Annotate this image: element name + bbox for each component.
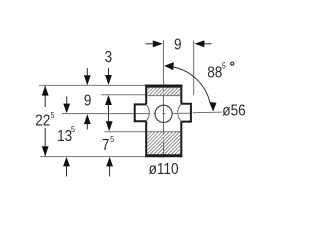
arc arrow down [209, 102, 216, 112]
label 9 top [174, 37, 182, 54]
angle arc 88.5 [171, 67, 210, 103]
svg-text:22: 22 [35, 113, 50, 130]
dim 9 left arrow down [86, 68, 88, 78]
svg-text:5: 5 [110, 134, 115, 144]
label diameter 56 [222, 103, 245, 120]
svg-text:5: 5 [51, 110, 56, 120]
extension line socket bottom (3) [101, 94, 146, 96]
arc arrow left [164, 62, 174, 70]
svg-text:3: 3 [105, 49, 113, 66]
svg-text:ø110: ø110 [149, 161, 179, 178]
body bottom edge [145, 155, 182, 157]
degree symbol [231, 62, 234, 65]
svg-text:ø56: ø56 [222, 103, 245, 120]
extension line hatch2 top (7.5) [105, 131, 147, 133]
svg-text:88: 88 [207, 64, 222, 81]
dim 3 arrow up + dim 7.5 arrow down shared stem [108, 101, 110, 124]
hatch band top (socket depth 3) [147, 87, 180, 96]
body top edge [145, 85, 182, 87]
vertical centerline [163, 41, 165, 158]
dim 22.5 arrow up [42, 86, 49, 96]
extension line top of body [39, 84, 146, 86]
right stub socket arc [178, 104, 181, 121]
label 13.5 [57, 128, 72, 145]
hatch band bottom (socket depth 7.5) [147, 132, 180, 156]
label 9 left [84, 92, 92, 109]
dim 9 top right arrow [203, 43, 212, 45]
svg-text:9: 9 [84, 92, 92, 109]
dim 3 arrow down [108, 68, 110, 77]
right stub [181, 104, 191, 122]
dim 13.5 arrow down [66, 96, 68, 106]
svg-text:5: 5 [71, 124, 76, 134]
hatch band top bottom line [147, 95, 180, 97]
dim 9 top left arrow [146, 43, 156, 45]
svg-text:7: 7 [102, 137, 110, 154]
horizontal centerline / branch axis left [62, 112, 222, 114]
left stub socket arc [146, 105, 149, 121]
dim 22.5 arrow down [42, 146, 49, 156]
label 88.5 [207, 64, 222, 81]
dim 13.5 arrow up bottom [66, 164, 68, 176]
left stub [135, 104, 147, 121]
branch circle [155, 105, 172, 122]
extension line bottom of body [40, 156, 146, 158]
extension line vertical branch end projection [193, 41, 195, 96]
body outline [146, 87, 181, 156]
svg-text:13: 13 [57, 128, 72, 145]
svg-text:5: 5 [222, 61, 227, 71]
label 3 [105, 49, 113, 66]
dim 22.5 line [44, 86, 46, 156]
svg-text:9: 9 [174, 37, 182, 54]
label 7.5 [102, 137, 110, 154]
hatch band bottom top line [146, 131, 180, 133]
label diameter 110 [149, 161, 179, 178]
label 22.5 [35, 113, 50, 130]
dim 7.5 arrow up bottom [109, 164, 111, 176]
dim 9 left arrow up [86, 122, 88, 130]
